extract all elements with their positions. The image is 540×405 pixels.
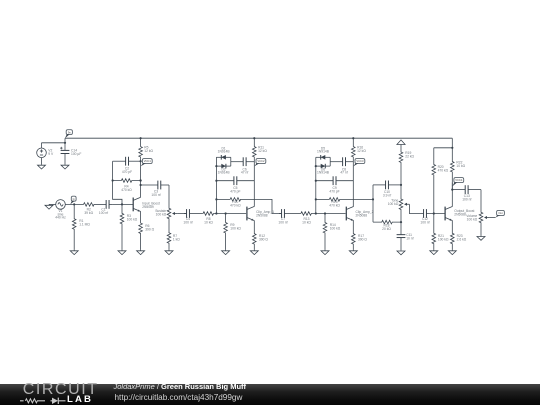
svg-text:100 kΩ: 100 kΩ <box>156 213 167 217</box>
svg-text:10 nf: 10 nf <box>406 237 413 241</box>
resistor R11 collector <box>253 137 268 159</box>
svg-text:100 kΩ: 100 kΩ <box>127 217 138 221</box>
svg-text:1N914B: 1N914B <box>218 171 231 175</box>
svg-text:2N5088: 2N5088 <box>454 213 466 217</box>
source V1 <box>55 200 66 220</box>
diodes D1 D2 <box>216 147 230 175</box>
svg-text:100 nf: 100 nf <box>99 211 108 215</box>
svg-text:1.1 MΩ: 1.1 MΩ <box>79 222 90 226</box>
resistor R17 emitter <box>352 220 368 250</box>
capacitor C2 <box>113 157 141 174</box>
svg-text:47 nf: 47 nf <box>340 170 347 174</box>
wire tone input column <box>372 185 374 222</box>
wire C4 to R8 <box>192 213 203 215</box>
resistor R6 emitter <box>139 211 155 250</box>
node In flag <box>70 196 76 204</box>
potentiometer Sustain <box>155 185 177 233</box>
byline text <box>114 383 247 391</box>
ground below R21 <box>430 250 438 255</box>
ground below R9 <box>222 250 230 255</box>
svg-text:12 kΩ: 12 kΩ <box>258 149 267 153</box>
capacitor C10 <box>373 181 401 198</box>
capacitor C3 <box>141 181 169 197</box>
node VCC3 flag <box>353 159 365 167</box>
svg-text:100 nf: 100 nf <box>151 193 160 197</box>
node VCC1 flag <box>141 159 153 167</box>
node VCC4 flag <box>452 178 463 187</box>
wire C12 to Q4 base <box>429 212 445 214</box>
svg-text:1N914B: 1N914B <box>317 150 330 154</box>
svg-text:47 nf: 47 nf <box>241 170 248 174</box>
resistor R2 <box>83 203 95 216</box>
svg-text:VCC2: VCC2 <box>257 159 265 163</box>
node VCC2 flag <box>254 159 265 167</box>
wire tone wiper <box>409 204 421 213</box>
transistor Q4 Output_Boost <box>445 207 474 221</box>
ground below R7 <box>165 250 173 255</box>
svg-text:390 Ω: 390 Ω <box>358 238 367 242</box>
ground below R17 <box>349 250 357 255</box>
capacitor C7 <box>278 209 287 224</box>
svg-text:1 kΩ: 1 kΩ <box>173 237 180 241</box>
capacitor C13 <box>452 185 481 201</box>
resistor R1 <box>72 204 90 250</box>
transistor Clip_Amp_1 <box>247 207 274 221</box>
potentiometer Tone <box>388 184 410 223</box>
svg-text:2N5089: 2N5089 <box>142 205 154 209</box>
wire C7 to R13 <box>287 213 301 215</box>
svg-text:470 kΩ: 470 kΩ <box>329 203 340 207</box>
ground below C11 <box>397 250 405 255</box>
wire Clip_Amp_2 collector column <box>352 159 354 207</box>
svg-text:390 Ω: 390 Ω <box>259 238 268 242</box>
node Out flag <box>496 210 505 217</box>
svg-text:2.6 kΩ: 2.6 kΩ <box>457 237 467 241</box>
wire Clip_Amp_1 base <box>216 212 246 214</box>
wire rail drop <box>434 138 454 149</box>
svg-text:VCC4: VCC4 <box>455 178 463 182</box>
svg-text:12 kΩ: 12 kΩ <box>357 149 366 153</box>
svg-text:100 nf: 100 nf <box>278 221 287 225</box>
svg-text:39 kΩ: 39 kΩ <box>84 211 93 215</box>
svg-text:20 kΩ: 20 kΩ <box>382 227 391 231</box>
CircuitLab logo CIRCUIT <box>23 382 99 398</box>
capacitor C9 <box>316 176 354 193</box>
svg-text:100 kΩ: 100 kΩ <box>330 227 341 231</box>
resistor R22 <box>451 148 466 190</box>
capacitor C8 <box>330 157 353 174</box>
svg-text:390 Ω: 390 Ω <box>145 228 154 232</box>
svg-text:100 µF: 100 µF <box>71 152 81 156</box>
wire stage1 feedback column <box>113 161 122 204</box>
ground below R12 <box>250 250 258 255</box>
ground left of V1 <box>45 204 56 209</box>
capacitor C12 <box>420 209 429 224</box>
svg-text:470 pF: 470 pF <box>329 190 339 194</box>
svg-text:470 pF: 470 pF <box>122 170 132 174</box>
wire Clip_Amp_1 collector column <box>253 159 255 207</box>
svg-text:100 kΩ: 100 kΩ <box>230 227 241 231</box>
svg-text:12 kΩ: 12 kΩ <box>144 149 153 153</box>
wire Q4 collector <box>451 183 453 207</box>
wire V2 branch <box>42 138 67 150</box>
ground below R23 <box>448 250 456 255</box>
capacitor C1 <box>95 200 113 215</box>
node 9v flag <box>65 130 72 139</box>
svg-text:100 kΩ: 100 kΩ <box>467 218 478 222</box>
resistor R3 <box>120 204 138 250</box>
svg-text:3.9 nf: 3.9 nf <box>383 193 391 197</box>
ground below R3 <box>118 250 126 255</box>
capacitor C6 <box>231 157 255 174</box>
ground below C14 <box>61 164 69 169</box>
wire Clip_Amp_1 feedback column <box>215 157 217 214</box>
wire 9V rail <box>65 137 452 139</box>
resistor R4 <box>112 179 142 192</box>
ground above R19 <box>397 140 405 148</box>
resistor R19 <box>399 148 414 185</box>
svg-text:10 kΩ: 10 kΩ <box>204 221 213 225</box>
wire stage3 output <box>353 198 374 200</box>
svg-text:100 nf: 100 nf <box>420 221 429 225</box>
svg-text:100 nf: 100 nf <box>183 221 192 225</box>
capacitor C14 <box>60 147 81 165</box>
resistor R5 <box>139 137 154 159</box>
resistor R21 <box>432 214 449 250</box>
svg-text:2N5088: 2N5088 <box>356 213 368 217</box>
wire sustain wiper <box>177 213 186 215</box>
svg-text:440 Hz: 440 Hz <box>55 215 66 219</box>
resistor R9 <box>224 214 242 250</box>
svg-text:2N5088: 2N5088 <box>256 213 268 217</box>
wire Clip_Amp_2 feedback column <box>315 157 317 214</box>
ground below Volume <box>477 236 485 241</box>
diodes D5 D6 <box>316 147 330 175</box>
svg-text:10 kΩ: 10 kΩ <box>302 221 311 225</box>
wire stage1 collector column <box>140 159 142 198</box>
ground below R14 <box>321 250 329 255</box>
logo resistor-diode squiggle <box>19 397 69 405</box>
resistor R16 collector <box>352 137 367 159</box>
svg-text:470 kΩ: 470 kΩ <box>121 188 132 192</box>
ground below R6 <box>137 250 145 255</box>
capacitor C5 <box>216 176 254 193</box>
capacitor C11 <box>397 222 414 250</box>
ground below R1 <box>70 250 78 255</box>
svg-text:1N914B: 1N914B <box>317 171 330 175</box>
wire volume wiper <box>489 217 495 219</box>
svg-text:1N914B: 1N914B <box>218 150 231 154</box>
svg-text:10 kΩ: 10 kΩ <box>456 164 465 168</box>
resistor R10 <box>216 198 254 208</box>
svg-text:470 pF: 470 pF <box>230 190 240 194</box>
svg-text:100 nf: 100 nf <box>462 197 471 201</box>
voltage source V2 <box>37 143 54 165</box>
transistor Q1 Input_Boost <box>133 197 160 211</box>
resistor R18 <box>373 220 401 231</box>
resistor R13 <box>301 212 316 225</box>
svg-text:100 kΩ: 100 kΩ <box>388 202 399 206</box>
resistor R8 <box>203 212 217 225</box>
resistor R12 emitter <box>253 220 269 250</box>
wire stage2 output <box>254 199 281 213</box>
CircuitLab logo LAB <box>67 395 93 405</box>
capacitor C4 <box>183 209 192 224</box>
svg-text:VCC3: VCC3 <box>356 159 364 163</box>
transistor Clip_Amp_2 <box>346 207 373 221</box>
resistor R14 <box>323 214 341 250</box>
wire V1 to R2 <box>65 203 83 205</box>
resistor R15 <box>316 198 354 208</box>
resistor R20 <box>432 148 449 214</box>
footer bar <box>0 384 540 405</box>
ground below V2 <box>38 164 46 169</box>
svg-text:9 V: 9 V <box>48 152 54 156</box>
wire C1 to Q1 base <box>113 203 134 205</box>
svg-text:470 kΩ: 470 kΩ <box>438 169 449 173</box>
svg-text:Out: Out <box>498 211 503 215</box>
resistor R7 <box>167 233 180 250</box>
svg-text:22 kΩ: 22 kΩ <box>405 154 414 158</box>
wire Clip_Amp_2 base <box>316 212 346 214</box>
resistor R23 emitter <box>451 220 467 250</box>
svg-text:VCC1: VCC1 <box>144 159 152 163</box>
svg-text:100 kΩ: 100 kΩ <box>438 237 449 241</box>
svg-text:470 kΩ: 470 kΩ <box>230 203 241 207</box>
potentiometer Volume <box>466 190 489 236</box>
